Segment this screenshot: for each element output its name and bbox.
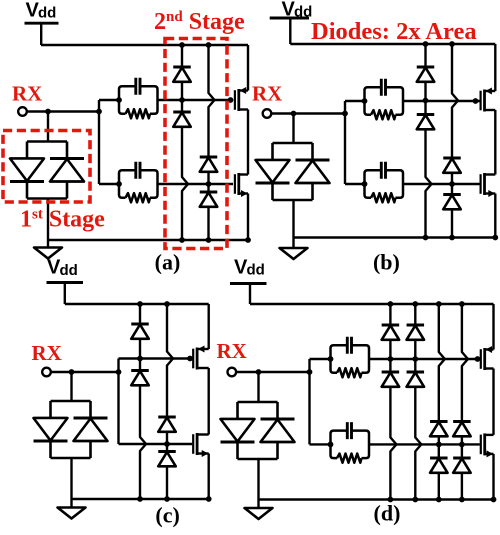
svg-text:RX: RX bbox=[12, 81, 42, 105]
svg-text:1st Stage: 1st Stage bbox=[20, 207, 105, 233]
svg-text:dd: dd bbox=[294, 4, 312, 21]
svg-text:dd: dd bbox=[60, 262, 78, 279]
svg-text:dd: dd bbox=[247, 262, 265, 279]
svg-text:Diodes: 2x Area: Diodes: 2x Area bbox=[311, 18, 477, 45]
svg-text:2nd Stage: 2nd Stage bbox=[154, 9, 245, 35]
svg-text:(a): (a) bbox=[155, 250, 181, 275]
svg-text:dd: dd bbox=[38, 5, 56, 22]
svg-text:(b): (b) bbox=[373, 250, 400, 275]
svg-text:RX: RX bbox=[32, 341, 62, 365]
svg-text:(d): (d) bbox=[374, 501, 401, 526]
svg-text:RX: RX bbox=[217, 339, 247, 363]
svg-text:(c): (c) bbox=[155, 503, 179, 528]
svg-text:RX: RX bbox=[252, 82, 282, 106]
